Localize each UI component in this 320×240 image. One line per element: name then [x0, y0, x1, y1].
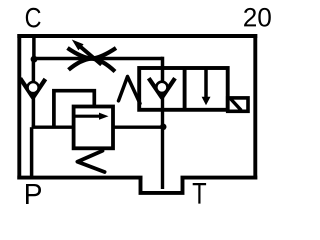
wire: relief valve outlet to T line [112, 125, 164, 128]
wire: pilot line from P-C line to relief valve [32, 125, 76, 128]
drawing number 20 [244, 8, 271, 27]
junction dot at C [31, 56, 38, 63]
throttle (adjustable restrictor) arcs [68, 48, 117, 72]
port label C [26, 8, 41, 28]
enclosure border [17, 34, 257, 180]
throttle adjustment arrow [72, 40, 102, 65]
valve check seat (position 1) [149, 78, 175, 97]
port label T [193, 183, 206, 204]
tank tab [141, 178, 183, 193]
port label P [26, 184, 41, 204]
check valve CV1 ball [27, 82, 38, 93]
valve check ball (position 1) [156, 82, 167, 93]
wire: T line through valve to tank tab [161, 94, 164, 189]
junction dot at T line [160, 124, 167, 131]
relief valve spring [77, 151, 104, 172]
directional valve position divider [183, 68, 187, 110]
relief valve pilot box [54, 91, 94, 128]
wire: C line to directional valve [33, 57, 162, 61]
wire: C stub from top edge to junction [32, 36, 36, 60]
directional valve DV1 body [139, 68, 228, 110]
directional valve spring [119, 77, 141, 104]
wire: vertical P-C line [32, 59, 36, 127]
check valve CV1 seat [20, 78, 45, 97]
relief valve main box [74, 107, 113, 149]
relief valve flow arrow [75, 113, 108, 120]
valve flow arrow (position 2) [202, 68, 211, 105]
solenoid actuator [228, 98, 248, 111]
